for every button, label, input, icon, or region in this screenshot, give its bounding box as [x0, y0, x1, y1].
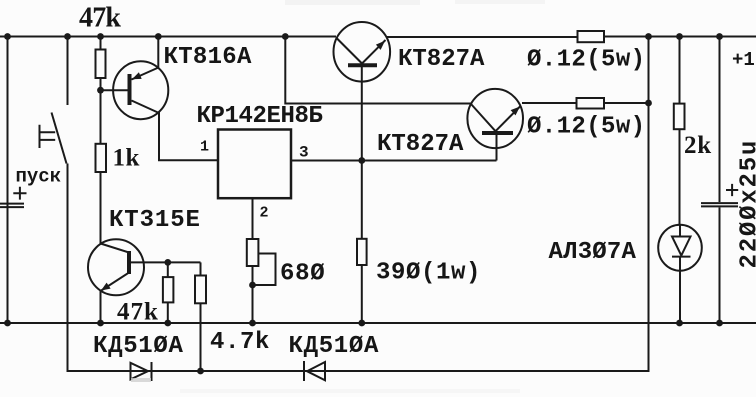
wire Q3 collector from rail node	[285, 37, 471, 104]
transistor Q3 base bar	[482, 131, 513, 135]
wire Q1 emitter to rail	[157, 37, 159, 69]
svg-text:КД51ØА: КД51ØА	[93, 333, 184, 360]
wire R4 bottom to diode wire	[200, 303, 202, 371]
diode VD2 KD510A triangle	[307, 362, 325, 380]
svg-text:3: 3	[299, 144, 309, 162]
resistor R8 0.12 body second	[577, 98, 605, 109]
wire R1 top	[100, 37, 102, 50]
resistor R3 47k body	[163, 277, 174, 302]
wire U1 pin2	[252, 198, 254, 239]
svg-text:КТ315Е: КТ315Е	[109, 207, 201, 234]
transistor Q1 collector diagonal	[132, 101, 160, 114]
junction node Q4 emitter rail	[97, 320, 104, 327]
resistor R5 680 body	[247, 239, 259, 266]
svg-text:АЛ3Ø7А: АЛ3Ø7А	[549, 239, 637, 266]
wire R9 top to rail	[679, 37, 681, 104]
svg-text:39Ø(1w): 39Ø(1w)	[376, 260, 481, 287]
wire R5 bottom to rail	[252, 266, 254, 323]
wire R3 bottom to rail	[167, 302, 169, 323]
wire top positive rail left segment	[0, 36, 336, 38]
svg-text:1k: 1k	[113, 145, 140, 172]
junction node output rail	[645, 33, 652, 40]
junction node HL1 rail	[676, 320, 683, 327]
diode VD2 cathode bar	[303, 361, 305, 381]
transistor Q1 base bar	[128, 74, 132, 105]
battery GB plate top	[0, 203, 24, 205]
junction node R3 rail	[164, 320, 171, 327]
wire Q1 collector to IC pin1	[159, 112, 218, 160]
junction node R8 output	[645, 100, 652, 107]
wire R2 bottom to Q4 collector	[100, 172, 102, 244]
battery plus sign	[13, 187, 26, 200]
capacitor C1 bottom wire	[719, 208, 721, 324]
wire Q4 emitter to rail	[100, 291, 102, 323]
wire HL1 cathode to rail	[679, 257, 681, 323]
resistor R2 1k body	[96, 144, 107, 172]
junction node R1 top	[97, 33, 104, 40]
svg-text:Ø.12(5w): Ø.12(5w)	[527, 114, 645, 141]
wire R1 bottom to node	[100, 78, 102, 144]
svg-text:КТ827А: КТ827А	[377, 131, 464, 158]
diode VD1 cathode bar	[151, 362, 153, 381]
wire Q2 emitter to resistor 0.12	[387, 36, 578, 38]
svg-text:КТ827А: КТ827А	[398, 46, 485, 73]
wire bottom rail	[0, 322, 756, 324]
junction node R9 rail	[676, 33, 683, 40]
junction node R6 rail	[358, 320, 365, 327]
switch SB1 blade	[52, 113, 67, 164]
capacitor C1 plate top	[701, 202, 738, 204]
junction node top rail left	[4, 33, 11, 40]
junction node switch top	[64, 33, 71, 40]
svg-text:47k: 47k	[117, 299, 159, 326]
transistor Q2 collector diagonal	[337, 38, 363, 64]
resistor R4 4.7k body	[195, 276, 206, 304]
junction node Q1 base R1 R2	[97, 87, 104, 94]
resistor R1 47k body	[96, 50, 106, 79]
wire U1 pin3 to Q2 base node and Q3 base	[291, 160, 497, 162]
scan smudge top left	[285, 0, 420, 5]
transistor Q2 KT827A circle	[334, 22, 391, 82]
svg-text:Ø.12(5w): Ø.12(5w)	[527, 47, 645, 74]
wire R8 right to output node	[604, 102, 649, 104]
scan smudge bottom middle	[180, 389, 520, 393]
svg-text:КР142ЕН8Б: КР142ЕН8Б	[197, 103, 323, 130]
wire R9 bottom to LED	[679, 129, 681, 225]
transistor Q3 collector diagonal	[471, 104, 496, 131]
voltage regulator U1 KR142EN8B body	[218, 130, 291, 199]
svg-text:2k: 2k	[684, 132, 712, 159]
transistor Q3 emitter diagonal	[496, 106, 521, 131]
wire R6 bottom to rail	[361, 265, 363, 323]
transistor Q4 emitter arrow	[101, 283, 111, 291]
switch SB1 actuator	[40, 125, 56, 148]
resistor R9 2k body	[674, 104, 685, 130]
scan smudge bottom left	[131, 378, 151, 382]
transistor Q4 KT315E circle	[88, 239, 144, 295]
transistor Q4 emitter diagonal	[101, 273, 130, 292]
junction node Q2 base pin3	[358, 157, 365, 164]
svg-text:пуск: пуск	[16, 166, 62, 188]
LED HL1 AL307A circle	[658, 225, 702, 271]
junction node C1 rail	[716, 33, 723, 40]
junction node C1 rail bottom	[716, 320, 723, 327]
wire Q4 base	[131, 261, 201, 263]
transistor Q2 base bar	[348, 63, 377, 67]
svg-text:47k: 47k	[79, 3, 121, 34]
junction node R5 wiper	[249, 282, 256, 289]
wire Q2 base down to node	[361, 67, 363, 161]
capacitor C1 plate bottom	[701, 205, 738, 207]
diode VD1 KD510A triangle	[131, 363, 149, 380]
capacitor C1 top wire	[719, 37, 721, 203]
svg-text:1: 1	[200, 139, 209, 156]
wire Q1 base	[101, 89, 129, 91]
svg-text:2: 2	[260, 205, 269, 222]
junction node R5 rail	[249, 320, 256, 327]
wire Q3 emitter to resistor 0.12 second	[522, 102, 577, 104]
capacitor C1 plus sign	[726, 184, 738, 196]
junction node Q1 emitter	[155, 33, 162, 40]
transistor Q1 emitter diagonal	[132, 68, 159, 80]
svg-text:68Ø: 68Ø	[280, 261, 325, 288]
switch SB1 пуск top wire	[67, 37, 69, 106]
resistor R6 390 body	[357, 239, 367, 265]
wire Q3 base vertical	[496, 134, 498, 161]
junction node Q3 collector rail	[282, 33, 289, 40]
wire HL1 anode inner segment	[679, 226, 681, 238]
wire output rail right segment	[604, 36, 756, 38]
svg-text:22ØØx25u: 22ØØx25u	[737, 139, 756, 269]
transistor Q1 KT816A circle	[113, 61, 168, 119]
transistor Q4 base bar	[127, 251, 131, 274]
transistor Q3 emitter arrow	[511, 107, 520, 116]
scan smudge top right	[455, 0, 545, 4]
transistor Q2 emitter diagonal	[362, 40, 386, 64]
transistor Q4 collector diagonal	[101, 244, 130, 253]
junction node R4 diode wire	[197, 368, 204, 375]
wire R3 top	[167, 262, 169, 277]
svg-text:+1: +1	[732, 49, 755, 71]
svg-text:КТ816А: КТ816А	[164, 44, 253, 71]
transistor Q3 KT827A circle	[467, 89, 523, 148]
wire lower output wire	[68, 37, 649, 372]
LED HL1 cathode bar	[672, 256, 691, 258]
wire Q2 base node to resistor 390	[361, 161, 363, 239]
junction node Q4 base R3	[164, 259, 171, 266]
transistor Q1 emitter arrow	[132, 72, 142, 79]
junction node bottom rail left	[4, 320, 11, 327]
wire R4 top	[200, 262, 202, 275]
battery GB plate bottom	[0, 206, 24, 208]
LED HL1 triangle	[672, 237, 691, 256]
trimmer R5 wiper tap	[253, 254, 276, 286]
wire left rail	[7, 37, 9, 324]
transistor Q2 emitter arrow	[376, 41, 385, 50]
svg-text:КД51ØА: КД51ØА	[289, 333, 380, 360]
svg-text:4.7k: 4.7k	[210, 329, 270, 356]
resistor R7 0.12 body first	[578, 31, 605, 42]
